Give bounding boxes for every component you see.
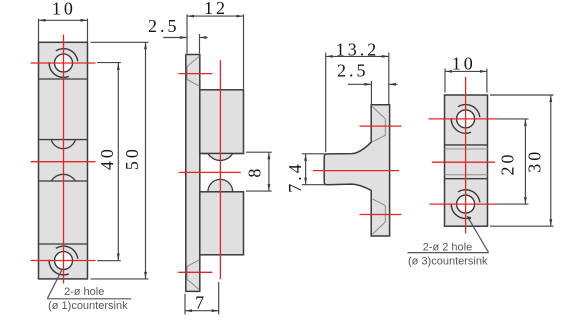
svg-text:2-ø hole: 2-ø hole <box>64 286 104 298</box>
svg-text:10: 10 <box>52 0 76 19</box>
svg-text:20: 20 <box>498 152 518 176</box>
svg-text:8: 8 <box>244 166 264 178</box>
svg-text:(ø 1)countersink: (ø 1)countersink <box>48 300 128 312</box>
svg-text:2-ø 2 hole: 2-ø 2 hole <box>423 242 473 254</box>
svg-text:13.2: 13.2 <box>336 39 380 59</box>
svg-text:7.4: 7.4 <box>285 161 305 193</box>
svg-text:2.5: 2.5 <box>337 61 369 81</box>
svg-text:7: 7 <box>195 292 207 312</box>
svg-text:2.5: 2.5 <box>148 16 180 36</box>
svg-text:40: 40 <box>97 146 117 170</box>
svg-text:30: 30 <box>525 149 545 173</box>
svg-text:50: 50 <box>122 146 142 170</box>
svg-text:(ø 3)countersink: (ø 3)countersink <box>408 256 488 268</box>
svg-text:12: 12 <box>204 0 228 18</box>
svg-text:10: 10 <box>452 53 476 73</box>
